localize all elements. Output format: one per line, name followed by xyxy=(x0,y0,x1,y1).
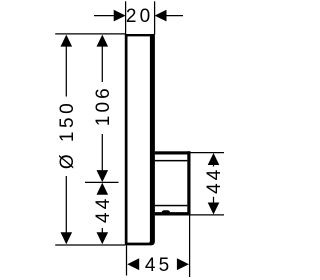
svg-text:Ø 150: Ø 150 xyxy=(57,100,78,169)
svg-text:44: 44 xyxy=(204,167,225,194)
svg-text:45: 45 xyxy=(145,255,172,276)
svg-text:44: 44 xyxy=(93,196,114,223)
svg-text:20: 20 xyxy=(126,6,153,27)
svg-text:106: 106 xyxy=(93,85,114,126)
